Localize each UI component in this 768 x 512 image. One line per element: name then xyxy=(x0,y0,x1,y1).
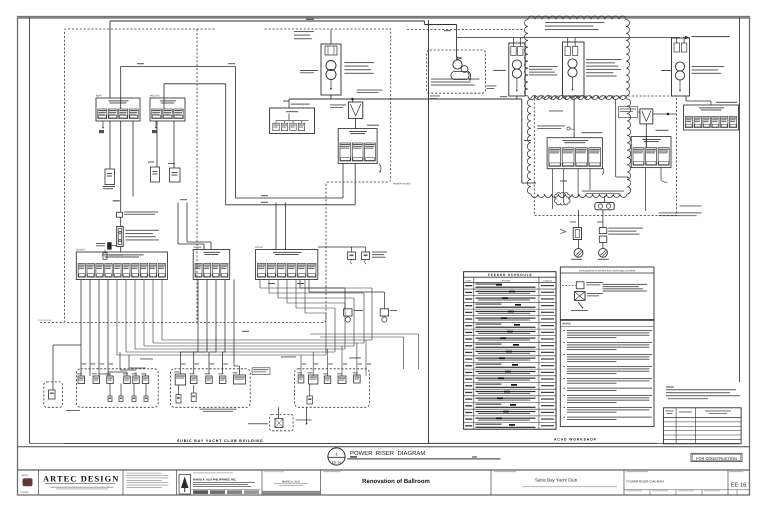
svg-text:FEEDER: FEEDER xyxy=(502,279,511,282)
svg-text:ACAD WORKSHOP: ACAD WORKSHOP xyxy=(554,437,597,441)
svg-text:DESIGN: DESIGN xyxy=(21,491,29,494)
svg-text:FOR CONSTRUCTION: FOR CONSTRUCTION xyxy=(696,456,737,461)
svg-text:EE-16: EE-16 xyxy=(731,482,747,488)
svg-text:Renovation of Ballroom: Renovation of Ballroom xyxy=(362,478,430,485)
svg-text:ARTEC: ARTEC xyxy=(22,474,30,477)
svg-text:POWER RISER DIAGRAM: POWER RISER DIAGRAM xyxy=(350,450,425,457)
svg-text:DP-AC: DP-AC xyxy=(256,246,264,249)
svg-text:MARK: MARK xyxy=(466,279,472,282)
svg-text:MARIO A. ALIX: MARIO A. ALIX xyxy=(282,481,301,484)
svg-text:MDP: MDP xyxy=(96,95,102,98)
svg-text:Subic Bay Yacht Club: Subic Bay Yacht Club xyxy=(535,478,578,483)
svg-text:EE-16: EE-16 xyxy=(332,461,342,465)
svg-text:F E E D E R S C H E D U L E: F E E D E R S C H E D U L E xyxy=(488,273,532,277)
svg-text:POWER RISER DIAGRAM: POWER RISER DIAGRAM xyxy=(627,480,665,484)
svg-text:SUBIC BAY YACHT CLUB BUILDING: SUBIC BAY YACHT CLUB BUILDING xyxy=(177,439,263,443)
svg-text:POWER HOUSE: POWER HOUSE xyxy=(393,183,411,186)
svg-text:CONDUIT: CONDUIT xyxy=(543,279,553,282)
svg-text:MARIO A. ALIX PHILIPPINES, INC: MARIO A. ALIX PHILIPPINES, INC. xyxy=(193,478,237,481)
svg-text:1ST FLR LVL: 1ST FLR LVL xyxy=(38,319,52,322)
svg-text:DP-GM: DP-GM xyxy=(193,246,201,249)
svg-text:ARTEC DESIGN: ARTEC DESIGN xyxy=(43,475,119,484)
svg-text:MCC-AC: MCC-AC xyxy=(150,95,160,98)
svg-text:NOTES: NOTES xyxy=(562,323,571,326)
svg-text:EXPLANATION OF WORKS FOR LIGHT: EXPLANATION OF WORKS FOR LIGHTS AND OUTL… xyxy=(579,270,636,273)
svg-text:DP-OUT: DP-OUT xyxy=(76,249,86,252)
